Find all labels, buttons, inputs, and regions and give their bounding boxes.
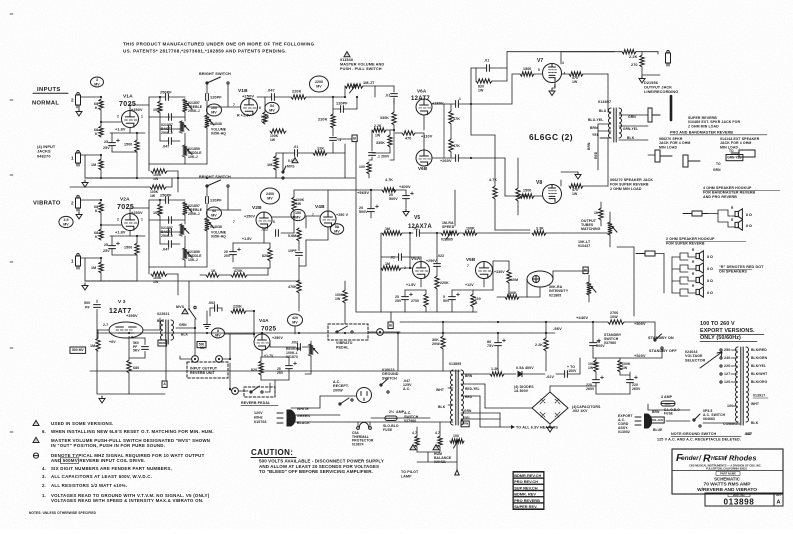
dual triode V3 — [109, 322, 143, 338]
wire — [595, 383, 597, 394]
wire — [519, 296, 527, 298]
wire tap 127 — [731, 373, 737, 375]
underline note — [671, 435, 741, 437]
wire — [554, 83, 556, 89]
wire — [288, 369, 290, 380]
wire — [159, 232, 161, 244]
wire plate up — [129, 208, 131, 214]
electrolytic 80 75V — [495, 339, 506, 346]
wire — [343, 108, 357, 110]
wire down to bus — [344, 144, 346, 178]
wire spk net b — [680, 293, 688, 296]
junction — [136, 235, 138, 237]
capacitor .01 b — [399, 254, 402, 261]
wire — [415, 132, 424, 134]
note warning triangle — [33, 437, 39, 443]
wire BLU to primary — [608, 111, 611, 113]
wire — [112, 151, 137, 153]
wire tone rail — [148, 200, 150, 267]
wire V5A plate — [420, 257, 422, 262]
wire — [549, 386, 551, 392]
junction on ground bus — [206, 177, 208, 179]
wire — [609, 212, 611, 222]
capacitor 120PF — [341, 106, 344, 113]
wire — [506, 68, 508, 81]
caution underline — [251, 457, 296, 459]
potentiometer 10K-LT matching — [608, 222, 617, 235]
wire — [397, 417, 430, 419]
wire — [641, 67, 643, 75]
ground — [76, 212, 82, 219]
wire spk lead — [688, 289, 696, 293]
signal level 40MV — [207, 207, 222, 219]
wire BLK secondary — [619, 139, 648, 141]
resistor 470K — [297, 280, 301, 293]
capacitor 500PF — [94, 305, 101, 308]
net A box — [162, 381, 167, 387]
wire — [171, 128, 180, 130]
speaker jack symbol — [648, 108, 660, 122]
wire yel — [461, 418, 500, 420]
wire — [396, 189, 406, 191]
wire pot down — [184, 157, 186, 164]
tap contact 220 — [720, 365, 722, 367]
electrolytic 220 265V b — [627, 376, 638, 383]
wire — [371, 157, 373, 160]
junction — [344, 96, 346, 98]
electrolytic 25 25V V2B — [230, 248, 241, 255]
warning MVS — [182, 309, 188, 315]
resistor 220K — [435, 276, 439, 289]
wire 1M to bus — [100, 170, 102, 178]
wire — [597, 124, 599, 170]
part no box — [705, 493, 774, 507]
wire V6A cathode — [423, 115, 425, 130]
wire — [297, 152, 313, 154]
resistor 100K 1W a — [594, 360, 598, 372]
wire — [247, 274, 268, 276]
vibrato pedal switch — [336, 326, 353, 333]
AC switch — [339, 398, 353, 405]
wire — [148, 267, 150, 274]
RCA jack pedal — [232, 388, 239, 395]
wire — [444, 157, 456, 159]
wire between 68K — [100, 213, 102, 229]
AC plug — [277, 410, 295, 426]
capacitor .1 200V — [369, 153, 376, 156]
junction on +440V rail — [545, 321, 547, 323]
resistor 4.7K — [493, 186, 497, 199]
warning triangle 011540 — [344, 52, 350, 58]
underline — [719, 269, 752, 271]
capacitor coupling upper — [456, 101, 459, 108]
wire — [232, 243, 234, 252]
resistor 100K slope — [158, 204, 162, 216]
wire — [159, 97, 161, 101]
wire — [370, 190, 372, 209]
wire down to reverb unit — [194, 328, 196, 356]
wire — [165, 344, 167, 381]
wire black — [291, 421, 453, 423]
junction — [470, 103, 472, 105]
wire GRN secondary — [619, 114, 648, 116]
warning MVS — [292, 158, 298, 164]
wire — [274, 380, 276, 394]
wire spk net a — [672, 277, 688, 281]
wire tone bottom — [149, 163, 185, 165]
resistor 68K upper — [99, 202, 103, 213]
wire V6A plate — [432, 103, 444, 105]
wire — [511, 74, 513, 104]
underline — [700, 335, 764, 342]
wire WHT — [448, 387, 453, 389]
wire — [185, 266, 207, 268]
tube V1B — [241, 99, 258, 116]
wire — [562, 73, 570, 75]
wire — [357, 422, 359, 427]
wire spk lead — [688, 253, 696, 257]
wire pedal shield — [229, 363, 231, 389]
resistor 68K lower — [99, 126, 103, 137]
wire spk net b — [680, 269, 688, 272]
wire — [527, 296, 540, 298]
wire — [276, 152, 283, 154]
wire — [405, 190, 407, 196]
wire pots — [184, 236, 186, 248]
wire — [636, 51, 658, 53]
wire tap 220 — [731, 365, 737, 367]
junction — [253, 333, 255, 335]
wire — [230, 389, 232, 391]
wire — [159, 318, 161, 330]
wire — [393, 125, 395, 130]
wire — [427, 452, 429, 462]
ground bridge — [547, 425, 553, 432]
wire volume down — [206, 128, 208, 164]
wire — [450, 152, 452, 158]
wire plate to tone — [130, 104, 149, 106]
wire — [232, 255, 234, 262]
potentiometer hum balance 100 — [450, 439, 464, 448]
wire — [459, 232, 463, 234]
junction — [253, 310, 255, 312]
wire MVS feed — [188, 281, 190, 308]
wire between 68K — [100, 110, 102, 126]
jack sym — [655, 150, 700, 167]
wire — [436, 289, 438, 312]
wire — [560, 180, 562, 186]
wire — [305, 216, 307, 228]
wire — [619, 372, 621, 375]
wire — [260, 357, 262, 361]
switch MVS reverb — [188, 306, 196, 319]
hookup jack 2ohm — [636, 251, 655, 256]
wire common — [703, 422, 737, 424]
wire — [648, 154, 655, 156]
resistor 12K — [313, 151, 327, 155]
warning a — [410, 445, 416, 451]
resistor 5.6M — [297, 228, 301, 241]
wire — [97, 329, 109, 331]
boxed 500MV reverb — [197, 342, 206, 348]
wire tap 120 — [731, 381, 737, 383]
wire — [217, 307, 222, 309]
wire tap 250 — [731, 349, 737, 351]
wire — [534, 73, 543, 75]
wire — [298, 266, 300, 280]
signal level 3MV input — [91, 77, 104, 87]
wire volume down — [206, 231, 208, 267]
capacitor 120PF bright — [206, 94, 209, 101]
wire — [227, 84, 229, 107]
wire — [546, 232, 607, 234]
resistor 680 — [127, 360, 131, 373]
wire — [470, 104, 472, 135]
speaker jack symbol2 — [731, 150, 755, 157]
signal level 420MV — [288, 314, 303, 326]
resistor 1.2K — [490, 372, 504, 376]
electrolytic 25/25V — [109, 242, 120, 249]
wire — [494, 199, 496, 230]
wire — [333, 108, 341, 110]
wire — [293, 190, 295, 197]
wire — [306, 239, 328, 241]
wire — [497, 346, 499, 371]
wire — [148, 164, 150, 171]
wire GRN-YEL secondary — [619, 125, 648, 127]
wire — [159, 129, 161, 141]
wire pots — [184, 133, 186, 145]
wire RED-YEL — [461, 383, 485, 385]
reverb unit dashed box — [187, 362, 228, 378]
junction — [229, 358, 231, 360]
wire — [305, 240, 307, 266]
wire — [552, 87, 555, 89]
note mv symbol — [33, 453, 38, 458]
capacitor bias — [565, 371, 568, 378]
wire — [96, 300, 98, 303]
wire — [168, 199, 185, 201]
selector arrow — [700, 352, 722, 368]
wire — [246, 310, 254, 312]
wire — [390, 159, 394, 161]
wire — [310, 341, 312, 347]
wire — [319, 396, 321, 408]
warning b — [433, 445, 439, 451]
resistor 100K 1W — [343, 290, 347, 303]
potentiometer bass 250K-J — [180, 121, 189, 133]
resistor 100K slope — [158, 101, 162, 113]
wire — [620, 374, 630, 376]
wire — [111, 146, 113, 152]
wire — [371, 417, 385, 419]
resistor 4.7 b — [438, 436, 442, 447]
wire — [363, 85, 375, 87]
wire — [499, 413, 501, 427]
wire — [614, 51, 622, 53]
wire BRN — [598, 130, 611, 132]
resistor 1M upper — [382, 231, 402, 235]
ground bus channel1 — [85, 177, 355, 179]
power tube V8 6L6GC — [543, 185, 562, 204]
wire — [269, 343, 271, 347]
wire output to V4A grid — [229, 334, 231, 359]
wire — [539, 287, 541, 297]
potentiometer treble 250K-J — [183, 99, 192, 112]
wire — [504, 373, 516, 375]
wire spk — [728, 210, 735, 216]
bright switch — [206, 77, 229, 84]
wire — [436, 266, 438, 276]
wire — [200, 274, 206, 276]
wire to net B — [337, 138, 352, 140]
resistor 4.7 a — [415, 436, 419, 447]
potentiometer master volume 1M-JT — [345, 84, 363, 93]
wire — [160, 128, 169, 130]
wire — [553, 270, 589, 272]
resistor 2.2K — [544, 338, 548, 351]
capacitor 250PF — [166, 197, 169, 204]
note warning triangle — [33, 420, 39, 426]
wire — [233, 267, 270, 269]
wire — [166, 186, 172, 188]
electrolytic 20 500V — [590, 339, 601, 346]
wire net B bus — [355, 142, 357, 312]
wire to bus — [85, 177, 101, 179]
wire — [444, 103, 456, 105]
junction on -56V rail — [344, 332, 346, 334]
wire — [111, 236, 113, 246]
wire spk2 — [728, 222, 735, 227]
signal level 3.5MV — [59, 216, 73, 227]
wire — [261, 356, 289, 358]
wire — [171, 243, 180, 245]
wire — [100, 155, 102, 159]
wire — [624, 321, 655, 323]
wire — [298, 257, 300, 266]
wire — [647, 404, 649, 410]
wire — [423, 133, 425, 150]
wire — [484, 384, 486, 408]
wire — [267, 268, 269, 275]
junction on -56V rail — [298, 332, 300, 334]
resistor 2.2K 1W — [372, 128, 386, 132]
junction on -56V rail — [442, 332, 444, 334]
potentiometer bass 250K-J — [180, 224, 189, 236]
rail +440V — [400, 321, 608, 323]
wire YEL — [600, 137, 611, 139]
wire spk net b — [680, 257, 688, 260]
bridge rectifier — [532, 392, 568, 424]
wire hookup rail — [663, 254, 665, 294]
junction on -56V rail — [497, 332, 499, 334]
resistor 470 — [402, 131, 415, 135]
heavy mark — [670, 96, 673, 120]
wire — [167, 170, 178, 172]
potentiometer treble 250K-J — [183, 202, 192, 215]
wire — [402, 232, 413, 234]
resistor 100K 1W b — [618, 360, 622, 372]
wire — [493, 260, 509, 262]
wire — [159, 200, 161, 204]
wire — [456, 441, 458, 459]
wire 1M to bus — [100, 273, 102, 281]
wire — [253, 311, 255, 334]
wire V1B plate — [257, 96, 265, 98]
wire bus segment — [110, 177, 137, 179]
wire — [534, 195, 543, 197]
wire — [629, 383, 631, 394]
photocell lamp — [527, 271, 553, 287]
signal level 2200MV — [310, 76, 329, 92]
wire — [128, 338, 130, 360]
wire — [607, 138, 609, 186]
wire — [661, 349, 663, 358]
wire — [619, 358, 621, 360]
wire — [508, 261, 510, 270]
wire — [561, 51, 614, 53]
fuse — [385, 416, 397, 421]
wire spk lead — [688, 277, 696, 281]
wire — [221, 308, 223, 311]
capacitor bass — [169, 126, 172, 133]
wire V4A cathode — [261, 350, 263, 357]
wire V5A grid — [401, 267, 413, 269]
wire — [344, 86, 346, 97]
wire — [497, 333, 499, 343]
wire — [405, 289, 426, 291]
wire — [416, 427, 418, 436]
resistor 1500 cathode — [135, 140, 139, 152]
wire — [450, 124, 452, 139]
speaker 8 ohm #1 — [696, 251, 703, 261]
wire — [607, 74, 609, 112]
resistor 1M — [99, 159, 103, 170]
wire — [458, 157, 471, 159]
tube V6B — [416, 150, 432, 166]
wire — [96, 309, 98, 338]
wire grid — [101, 224, 121, 226]
junction on -56V rail — [128, 332, 130, 334]
wire — [477, 232, 530, 234]
speaker 8 ohm #2 — [696, 263, 703, 273]
capacitor .022 V2B — [276, 230, 279, 237]
wire green — [291, 414, 340, 416]
wire — [160, 243, 169, 245]
wire — [368, 331, 376, 333]
input jack 2 — [76, 196, 81, 212]
wire — [389, 147, 391, 153]
tap contact 120 — [720, 381, 722, 383]
junction — [470, 157, 472, 159]
resistor 2700 — [424, 294, 428, 307]
wire — [657, 52, 659, 54]
part name bar — [716, 472, 740, 476]
wire — [144, 338, 146, 345]
junction — [393, 129, 395, 131]
boxed 500MV — [70, 347, 86, 353]
potentiometer middle 10K-J — [183, 248, 192, 260]
wire — [96, 351, 98, 394]
wire V5A cathode — [420, 279, 422, 288]
tube V4B — [320, 211, 336, 227]
wire — [409, 257, 411, 268]
wire cathode rail — [110, 235, 145, 237]
GRN-YEL box — [726, 155, 743, 161]
signal level 5A MV — [330, 224, 343, 234]
wire bus — [101, 177, 110, 179]
wire — [294, 189, 352, 191]
